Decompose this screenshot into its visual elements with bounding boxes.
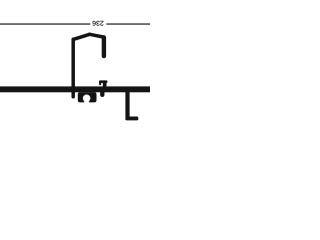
hook left vertical (through band) [71,39,75,96]
dimension line left segment [0,23,90,25]
right flange left lip [99,81,101,85]
hook right vertical [102,38,106,57]
screw-boss clip below band [78,92,97,102]
clip slot opening (white) [84,99,89,103]
hook left slope [73,34,89,39]
right flange stub below band [100,92,104,95]
main band (glazing line) [0,86,150,92]
hook right slope [90,34,104,37]
leg with foot (L-shape) [125,92,138,120]
right flange top bar [99,80,107,83]
right flange vertical into band [103,81,107,88]
dimension text 236 (rotated 180) [93,21,104,26]
dimension line right segment [106,23,150,25]
